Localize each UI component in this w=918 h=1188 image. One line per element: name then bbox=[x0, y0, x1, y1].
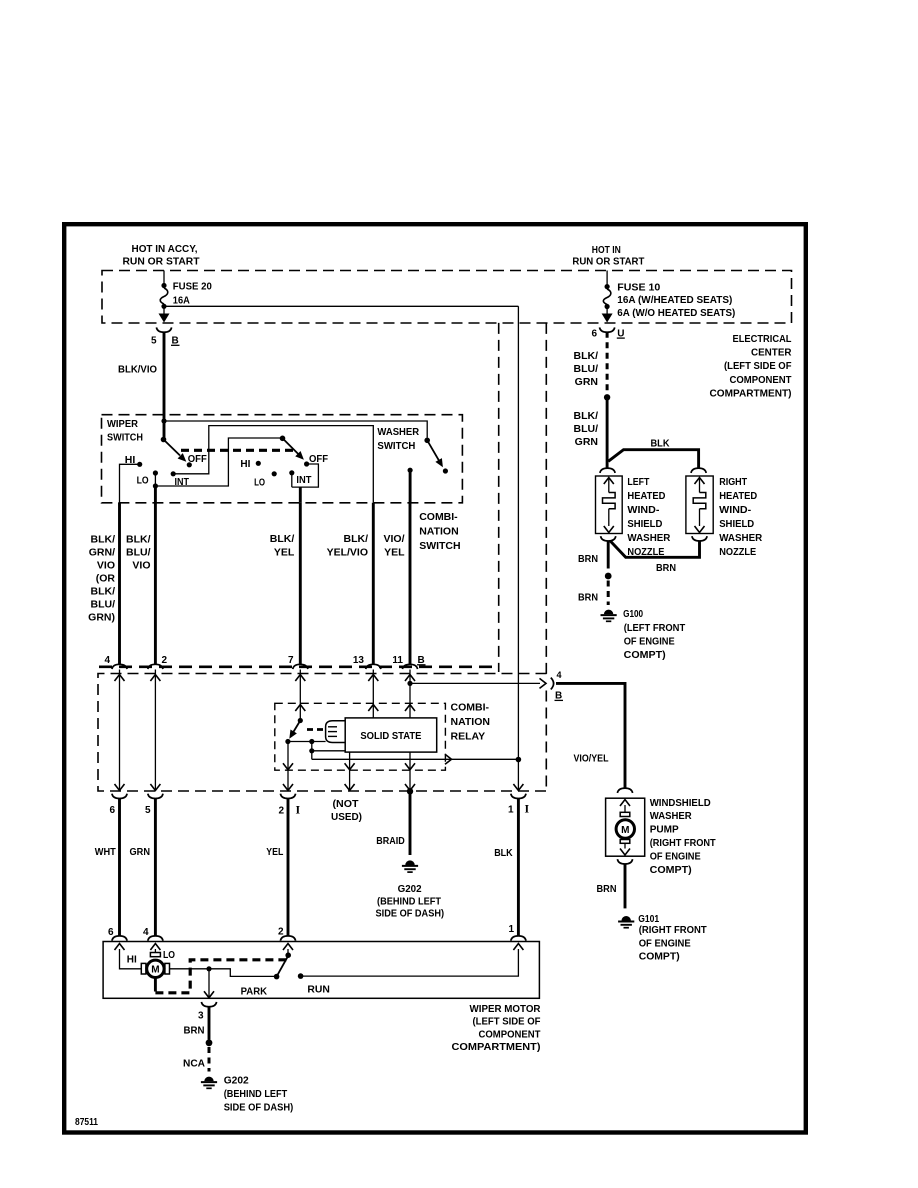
node BLK junction bbox=[516, 757, 522, 763]
node park arm top bbox=[285, 952, 291, 958]
svg-text:LO: LO bbox=[254, 477, 265, 489]
arrow into relay terminal 4 bbox=[115, 675, 125, 682]
connector left nozzle top bbox=[600, 468, 615, 473]
svg-text:11: 11 bbox=[392, 655, 403, 666]
svg-text:OFF: OFF bbox=[188, 453, 208, 465]
svg-text:BLU/: BLU/ bbox=[574, 363, 599, 375]
svg-text:(NOT: (NOT bbox=[333, 798, 360, 810]
windshield washer pump box bbox=[606, 798, 645, 856]
connector relay terminal 6 bbox=[112, 794, 127, 799]
wire BLK down to terminal 1 bbox=[517, 760, 519, 791]
svg-text:WINDSHIELD: WINDSHIELD bbox=[650, 797, 711, 809]
svg-text:WASHER: WASHER bbox=[719, 532, 762, 544]
svg-text:SIDE OF DASH): SIDE OF DASH) bbox=[224, 1101, 294, 1113]
svg-text:COMPT): COMPT) bbox=[624, 649, 666, 661]
wire - BLK vertical run to relay area bbox=[517, 306, 519, 759]
label FUSE 10 ratings bbox=[617, 281, 735, 319]
combination relay outer dashed box bbox=[98, 674, 547, 792]
connector motor terminal 4 bbox=[148, 936, 163, 941]
connector right nozzle top bbox=[691, 468, 706, 473]
arrow motor ground at box bottom bbox=[204, 991, 214, 998]
arrow not-used at outer box bbox=[345, 784, 355, 791]
node terminal 11 branch bbox=[407, 681, 412, 686]
svg-text:4: 4 bbox=[104, 655, 110, 666]
svg-text:BRN: BRN bbox=[578, 592, 598, 604]
relay switch arm bbox=[286, 721, 300, 741]
svg-text:VIO/: VIO/ bbox=[383, 533, 404, 545]
wire motor ground inside box bbox=[208, 969, 210, 997]
svg-text:FUSE 20: FUSE 20 bbox=[173, 281, 212, 293]
label terminal B (right) bbox=[555, 691, 564, 702]
svg-text:INT: INT bbox=[175, 476, 190, 488]
arrow terminal 7 at inner box bbox=[295, 705, 305, 712]
wire VIO/YEL inside switch box bbox=[409, 470, 412, 503]
wire relay output to BLK junction bbox=[312, 758, 519, 760]
svg-text:NCA: NCA bbox=[183, 1058, 205, 1070]
node - fuse 20 output bbox=[161, 304, 166, 309]
svg-text:I: I bbox=[296, 802, 301, 816]
connector relay terminal 1 bbox=[511, 794, 526, 799]
connector relay terminal 5 bbox=[148, 794, 163, 799]
svg-text:COMPT): COMPT) bbox=[639, 951, 680, 963]
arrow out relay terminal 5 bbox=[150, 784, 160, 791]
svg-text:3: 3 bbox=[198, 1011, 204, 1022]
wiper switch arm 2 (to OFF) bbox=[283, 438, 307, 462]
combination switch boundary bottom (heavy dashed) bbox=[99, 665, 498, 668]
motor M1 wiper motor bbox=[141, 953, 169, 978]
arrow motor terminal 6 bbox=[115, 944, 125, 951]
label G202 (BEHIND LEFT SIDE OF DASH) center bbox=[376, 883, 445, 920]
wire terminal 11 into solid state bbox=[409, 670, 411, 718]
arrow motor terminal 1 bbox=[513, 944, 523, 951]
label G101 (RIGHT FRONT OF ENGINE COMPT) bbox=[638, 913, 707, 963]
wire terminal 13 into solid state bbox=[372, 670, 374, 718]
label (NOT USED) bbox=[331, 798, 362, 823]
arrow into relay terminal 2 bbox=[150, 675, 160, 682]
svg-text:G202: G202 bbox=[398, 883, 422, 895]
svg-text:OF ENGINE: OF ENGINE bbox=[624, 636, 675, 648]
svg-text:M: M bbox=[151, 965, 159, 976]
wire BLK/YEL (terminal 7) bbox=[299, 503, 302, 665]
svg-text:BRN: BRN bbox=[597, 883, 617, 895]
node - fuse 20 top bbox=[161, 283, 166, 288]
connector motor terminal 1 bbox=[511, 936, 526, 941]
svg-text:COMPARTMENT): COMPARTMENT) bbox=[452, 1041, 541, 1053]
connector terminal 7 bbox=[293, 664, 308, 669]
svg-text:2: 2 bbox=[278, 805, 284, 816]
node motor output junction bbox=[206, 966, 211, 971]
label FUSE 20 16A bbox=[173, 281, 212, 307]
right nozzle heater element bbox=[693, 478, 706, 533]
node - arm 2 OFF position bbox=[304, 461, 309, 466]
wire motor 4 to top brush bbox=[154, 949, 156, 953]
label relay terminal 1 I bbox=[508, 801, 530, 815]
wire VIO/YEL to pump bbox=[556, 683, 625, 788]
connector pump top bbox=[617, 788, 632, 793]
wire - fuse 20 output horizontal run bbox=[164, 305, 518, 307]
connector left nozzle bottom bbox=[601, 536, 616, 541]
svg-text:BRN: BRN bbox=[184, 1025, 205, 1037]
node relay internal junction 2 bbox=[309, 748, 314, 753]
svg-text:LEFT: LEFT bbox=[627, 476, 649, 488]
wire BRN (motor ground) bbox=[208, 1007, 211, 1040]
wire branch to connector 4/B bbox=[410, 682, 540, 684]
svg-text:16A (W/HEATED SEATS): 16A (W/HEATED SEATS) bbox=[617, 294, 732, 306]
wire internal vertical bbox=[311, 742, 313, 760]
svg-text:HI: HI bbox=[127, 954, 137, 966]
svg-text:BLK/: BLK/ bbox=[91, 586, 116, 598]
svg-text:COMPT): COMPT) bbox=[650, 864, 692, 876]
svg-text:16A: 16A bbox=[173, 294, 190, 306]
svg-text:COMPARTMENT): COMPARTMENT) bbox=[710, 388, 792, 400]
svg-text:BLK/: BLK/ bbox=[91, 534, 116, 546]
label G100 (LEFT FRONT OF ENGINE COMPT) bbox=[623, 608, 686, 661]
svg-text:WASHER: WASHER bbox=[377, 426, 419, 438]
relay coil mechanical link (dashed) bbox=[307, 728, 326, 731]
arrow at connector 4/B bbox=[540, 678, 547, 688]
svg-text:VIO: VIO bbox=[132, 560, 150, 572]
svg-text:G100: G100 bbox=[623, 608, 643, 620]
node relay internal junction 1 bbox=[309, 739, 314, 744]
svg-text:HOT IN ACCY,: HOT IN ACCY, bbox=[132, 243, 198, 255]
svg-text:SIDE OF DASH): SIDE OF DASH) bbox=[376, 908, 445, 920]
park switch contact PARK bbox=[274, 974, 280, 980]
wire BLK bbox=[517, 799, 520, 937]
contact - washer switch output bbox=[408, 468, 413, 473]
svg-text:VIO: VIO bbox=[97, 560, 115, 572]
wire solid state to BRAID terminal bbox=[409, 752, 411, 791]
connector terminal 6/U at electrical center bbox=[600, 327, 615, 332]
svg-text:VIO/YEL: VIO/YEL bbox=[574, 753, 609, 765]
svg-text:SWITCH: SWITCH bbox=[419, 540, 460, 552]
wire BLK/VIO bbox=[163, 332, 166, 440]
label terminal 6 U bbox=[591, 328, 624, 339]
svg-text:RELAY: RELAY bbox=[451, 731, 486, 743]
mechanical link between wiper arms (dashed) bbox=[181, 449, 295, 452]
wire - feed to washer switch pivot bbox=[164, 421, 427, 438]
contact HI (wiper 1) bbox=[137, 462, 142, 467]
svg-text:(OR: (OR bbox=[96, 573, 116, 585]
node BRAID terminal bbox=[407, 788, 413, 794]
svg-text:GRN: GRN bbox=[575, 436, 598, 448]
connector relay terminal 2 (bottom) bbox=[280, 794, 295, 799]
wire WHT bbox=[118, 799, 121, 937]
ground G202 (wiper motor) bbox=[204, 1077, 213, 1082]
svg-text:4: 4 bbox=[557, 670, 562, 680]
svg-text:WASHER: WASHER bbox=[627, 532, 670, 544]
arrow BRAID at outer box bbox=[405, 784, 415, 791]
svg-text:BLK/: BLK/ bbox=[126, 534, 151, 546]
wire park arm to terminal 2 bbox=[287, 949, 289, 953]
relay switch contact (top) bbox=[298, 718, 303, 723]
svg-text:(RIGHT FRONT: (RIGHT FRONT bbox=[650, 837, 717, 849]
svg-text:RIGHT: RIGHT bbox=[719, 476, 747, 488]
svg-text:WIND-: WIND- bbox=[627, 504, 660, 516]
svg-text:RUN OR START: RUN OR START bbox=[123, 256, 201, 268]
svg-text:PARK: PARK bbox=[241, 986, 268, 998]
svg-text:(RIGHT FRONT: (RIGHT FRONT bbox=[639, 924, 708, 936]
fuse F10 element bbox=[603, 289, 611, 305]
svg-text:SHIELD: SHIELD bbox=[719, 518, 754, 530]
arrow into relay terminal 11 bbox=[405, 675, 415, 682]
svg-text:ELECTRICAL: ELECTRICAL bbox=[733, 333, 793, 345]
ground G202 (braid) bbox=[405, 860, 414, 865]
svg-text:(LEFT SIDE OF: (LEFT SIDE OF bbox=[724, 360, 792, 372]
connector terminal 13 bbox=[366, 664, 381, 669]
node BRN/NCA splice bbox=[206, 1039, 213, 1046]
arrow BRAID at inner box bbox=[405, 763, 415, 770]
connector terminal 5/B at electrical center bbox=[156, 327, 171, 332]
node - fuse 10 output bbox=[605, 304, 610, 309]
arrow BLK at outer box bbox=[513, 784, 523, 791]
svg-text:BLU/: BLU/ bbox=[91, 599, 116, 611]
arrow pivot wire at outer box bbox=[283, 784, 293, 791]
wire BLK/BLU/GRN to left nozzle bbox=[606, 397, 609, 467]
wire - HI contact to terminal 4 run bbox=[120, 464, 140, 503]
svg-text:GRN: GRN bbox=[130, 846, 151, 858]
combination relay inner dashed box bbox=[275, 703, 446, 770]
svg-text:6: 6 bbox=[591, 328, 597, 339]
combination switch boundary right edge (dashed) bbox=[498, 323, 500, 672]
contact LO (wiper 1) bbox=[153, 470, 158, 475]
svg-text:CENTER: CENTER bbox=[751, 347, 792, 359]
wire BLK branch to right nozzle bbox=[608, 450, 698, 468]
wire relay pivot to terminal 2 output bbox=[287, 742, 289, 791]
label HOT IN ACCY, RUN OR START (left) bbox=[123, 243, 201, 268]
svg-text:5: 5 bbox=[151, 336, 157, 347]
arrow motor terminal 2 bbox=[283, 944, 293, 951]
wire BRN from right nozzle bbox=[610, 541, 699, 558]
wire NCA (dashed) bbox=[208, 1047, 211, 1072]
wire terminal 7 into inner relay bbox=[299, 670, 301, 720]
wire - LO branch to arm 2 pivot bbox=[155, 438, 281, 486]
svg-text:GRN/: GRN/ bbox=[89, 547, 115, 559]
arrow terminal 13 at inner box bbox=[368, 705, 378, 712]
svg-text:HEATED: HEATED bbox=[719, 490, 757, 502]
wire - fuse 10 feed stub bbox=[606, 271, 608, 286]
wire - LO contact down bbox=[154, 473, 156, 486]
relay coil bbox=[326, 721, 346, 743]
arrow terminal 11 at inner box bbox=[405, 705, 415, 712]
svg-text:SHIELD: SHIELD bbox=[627, 518, 662, 530]
svg-text:OF ENGINE: OF ENGINE bbox=[650, 850, 701, 862]
arrow relay output bbox=[445, 754, 452, 764]
contact RUN bbox=[298, 973, 304, 979]
left heated windshield washer nozzle box bbox=[596, 476, 623, 534]
svg-text:BLK/: BLK/ bbox=[574, 350, 599, 362]
svg-text:YEL: YEL bbox=[274, 547, 295, 559]
svg-text:BLK/: BLK/ bbox=[270, 533, 295, 545]
svg-text:(BEHIND LEFT: (BEHIND LEFT bbox=[224, 1088, 288, 1100]
left nozzle heater element bbox=[603, 478, 616, 533]
label terminal B (top row) bbox=[417, 655, 426, 666]
svg-text:GRN: GRN bbox=[575, 376, 598, 388]
label WASHER SWITCH bbox=[377, 426, 419, 452]
wire BRN from left nozzle bbox=[607, 541, 610, 569]
wiper-washer switch dashed box bbox=[102, 415, 463, 503]
svg-text:WIND-: WIND- bbox=[719, 504, 752, 516]
wire GRN bbox=[154, 799, 157, 937]
svg-text:BLK: BLK bbox=[494, 847, 513, 859]
label WINDSHIELD WASHER PUMP (RIGHT FRONT OF ENGINE COMPT) bbox=[650, 797, 717, 876]
arrow out relay terminal 6 bbox=[115, 784, 125, 791]
svg-text:RUN OR START: RUN OR START bbox=[572, 256, 645, 268]
node - feed junction in wiper switch bbox=[161, 418, 166, 423]
wire BLK/BLU/VIO (terminal 2) bbox=[154, 503, 157, 665]
arrow not-used at inner box bbox=[345, 763, 355, 770]
contact INT (wiper 2) bbox=[289, 470, 294, 475]
wire to solid state bottom left bbox=[312, 750, 345, 752]
wire terminal 2 to 5 through relay bbox=[154, 670, 156, 791]
svg-text:(BEHIND LEFT: (BEHIND LEFT bbox=[377, 895, 442, 907]
connector right nozzle bottom bbox=[692, 536, 707, 541]
svg-text:NATION: NATION bbox=[419, 526, 458, 538]
label WIPER MOTOR (LEFT SIDE OF COMPONENT COMPARTMENT) bbox=[452, 1003, 542, 1053]
svg-text:PUMP: PUMP bbox=[650, 824, 679, 836]
wire BLK/BLU/GRN (dashed) bbox=[606, 332, 609, 394]
connector 4/B at electrical center bbox=[551, 678, 554, 690]
wire - INT contact to terminal 13 run bbox=[173, 426, 373, 503]
label G202 (BEHIND LEFT SIDE OF DASH) left bbox=[224, 1074, 294, 1113]
svg-text:HOT IN: HOT IN bbox=[592, 244, 621, 256]
svg-text:13: 13 bbox=[353, 655, 365, 666]
label ELECTRICAL CENTER (LEFT SIDE OF COMPONENT COMPARTMENT) bbox=[710, 333, 793, 400]
wire motor 6 to HI brush bbox=[120, 949, 142, 969]
arrow motor terminal 4 bbox=[150, 944, 160, 951]
wire pivot to coil bbox=[288, 741, 326, 743]
border frame bbox=[64, 224, 806, 1132]
wire terminal 4 to 6 through relay bbox=[119, 670, 121, 791]
svg-text:OFF: OFF bbox=[309, 453, 329, 465]
ground G100 bbox=[604, 610, 613, 615]
solid state module box bbox=[345, 718, 437, 752]
wiper switch arm 2 pivot bbox=[280, 436, 286, 442]
wiper switch arm 1 pivot bbox=[161, 437, 167, 443]
wire motor output to park switch bbox=[170, 969, 275, 977]
svg-text:(LEFT FRONT: (LEFT FRONT bbox=[624, 622, 686, 634]
right heated windshield washer nozzle box bbox=[686, 476, 713, 534]
ground G101 bbox=[622, 916, 631, 921]
svg-text:SWITCH: SWITCH bbox=[107, 431, 143, 443]
svg-text:4: 4 bbox=[143, 927, 149, 938]
svg-text:1: 1 bbox=[508, 804, 514, 815]
wire VIO/YEL (terminal 11) bbox=[409, 503, 412, 665]
wire BRN dashed to G100 bbox=[607, 581, 610, 606]
wire BLK/GRN/VIO (terminal 4) bbox=[118, 503, 121, 665]
arrow into relay terminal 13 bbox=[368, 675, 378, 682]
svg-text:BRN: BRN bbox=[656, 562, 676, 574]
svg-text:RUN: RUN bbox=[307, 983, 330, 995]
node - washer arm open position bbox=[443, 468, 448, 473]
node BRN splice (nozzles) bbox=[605, 573, 612, 580]
svg-text:WASHER: WASHER bbox=[650, 810, 692, 822]
wire BLK/YEL/VIO (terminal 13) bbox=[372, 503, 375, 665]
svg-text:COMBI-: COMBI- bbox=[451, 702, 490, 714]
node - LO junction bbox=[153, 483, 158, 488]
svg-text:SOLID STATE: SOLID STATE bbox=[360, 731, 421, 742]
svg-text:BLK/: BLK/ bbox=[344, 533, 369, 545]
svg-text:COMPONENT: COMPONENT bbox=[730, 374, 793, 386]
svg-text:GRN): GRN) bbox=[88, 612, 115, 624]
svg-text:NATION: NATION bbox=[451, 716, 490, 728]
svg-text:INT: INT bbox=[296, 474, 312, 486]
connector motor terminal 3 bbox=[201, 1002, 216, 1007]
svg-text:BLU/: BLU/ bbox=[126, 547, 151, 559]
svg-text:HEATED: HEATED bbox=[627, 490, 665, 502]
contact LO (wiper 2) bbox=[272, 471, 277, 476]
label WIPER SWITCH bbox=[107, 418, 143, 444]
svg-text:2: 2 bbox=[278, 926, 284, 937]
svg-text:HI: HI bbox=[240, 458, 250, 470]
svg-text:BLU/: BLU/ bbox=[574, 423, 599, 435]
node - arm 1 OFF position bbox=[187, 462, 192, 467]
svg-text:WIPER MOTOR: WIPER MOTOR bbox=[470, 1003, 541, 1015]
contact INT (wiper 1) bbox=[171, 471, 176, 476]
wire BRAID to ground bbox=[409, 791, 412, 855]
connector motor terminal 2 bbox=[280, 936, 295, 941]
svg-text:LO: LO bbox=[163, 949, 175, 961]
relay switch pivot bbox=[285, 739, 290, 744]
svg-text:87511: 87511 bbox=[75, 1117, 98, 1128]
arrow - fuse 20 output down bbox=[163, 306, 165, 315]
svg-text:WIPER: WIPER bbox=[107, 418, 138, 430]
svg-text:BLK/VIO: BLK/VIO bbox=[118, 364, 157, 376]
svg-text:6: 6 bbox=[109, 805, 115, 816]
wire - LO to box bottom bbox=[154, 486, 157, 503]
label HOT IN RUN OR START (right) bbox=[572, 244, 645, 268]
svg-text:LO: LO bbox=[137, 475, 149, 487]
washer switch arm bbox=[427, 440, 446, 469]
svg-text:6: 6 bbox=[108, 927, 114, 938]
arrow into relay terminal 7 bbox=[295, 675, 305, 682]
svg-text:5: 5 bbox=[145, 805, 151, 816]
svg-text:I: I bbox=[525, 801, 530, 815]
svg-text:BLK/: BLK/ bbox=[574, 410, 599, 422]
label relay terminal 2 I bbox=[278, 802, 300, 816]
svg-text:YEL: YEL bbox=[266, 846, 283, 858]
wiper switch arm 1 (to OFF) bbox=[164, 440, 189, 465]
label terminal 5 B bbox=[151, 336, 180, 347]
svg-text:G202: G202 bbox=[224, 1074, 249, 1086]
svg-text:USED): USED) bbox=[331, 811, 362, 823]
motor mechanical link to park switch (dashed) bbox=[155, 960, 287, 993]
svg-text:(LEFT SIDE OF: (LEFT SIDE OF bbox=[473, 1016, 542, 1028]
pump motor M2 bbox=[616, 800, 634, 856]
wire BRN pump to G101 bbox=[624, 864, 627, 909]
washer switch pivot bbox=[424, 438, 430, 444]
connector terminal 11 bbox=[402, 664, 417, 669]
svg-text:6A (W/O HEATED SEATS): 6A (W/O HEATED SEATS) bbox=[617, 307, 735, 319]
arrow - fuse 10 output down bbox=[606, 307, 608, 316]
svg-text:COMPONENT: COMPONENT bbox=[479, 1028, 542, 1040]
svg-text:1: 1 bbox=[508, 924, 514, 935]
connector pump bottom bbox=[617, 859, 632, 864]
svg-text:BRN: BRN bbox=[578, 553, 598, 565]
svg-text:NOZZLE: NOZZLE bbox=[719, 546, 756, 558]
arrow pivot wire at inner box bbox=[283, 763, 293, 770]
wire solid state to not-used terminal bbox=[349, 752, 351, 790]
fuse F20 element bbox=[160, 288, 168, 304]
contact HI (wiper 2) bbox=[256, 461, 261, 466]
svg-text:WHT: WHT bbox=[95, 846, 117, 858]
svg-text:BLK: BLK bbox=[651, 438, 670, 450]
wiper motor box bbox=[103, 942, 539, 999]
svg-text:YEL: YEL bbox=[384, 547, 405, 559]
connector motor terminal 6 bbox=[112, 936, 127, 941]
node BLK/BLU/GRN splice bbox=[604, 394, 610, 400]
svg-text:SWITCH: SWITCH bbox=[377, 440, 415, 452]
svg-text:FUSE 10: FUSE 10 bbox=[617, 281, 660, 293]
